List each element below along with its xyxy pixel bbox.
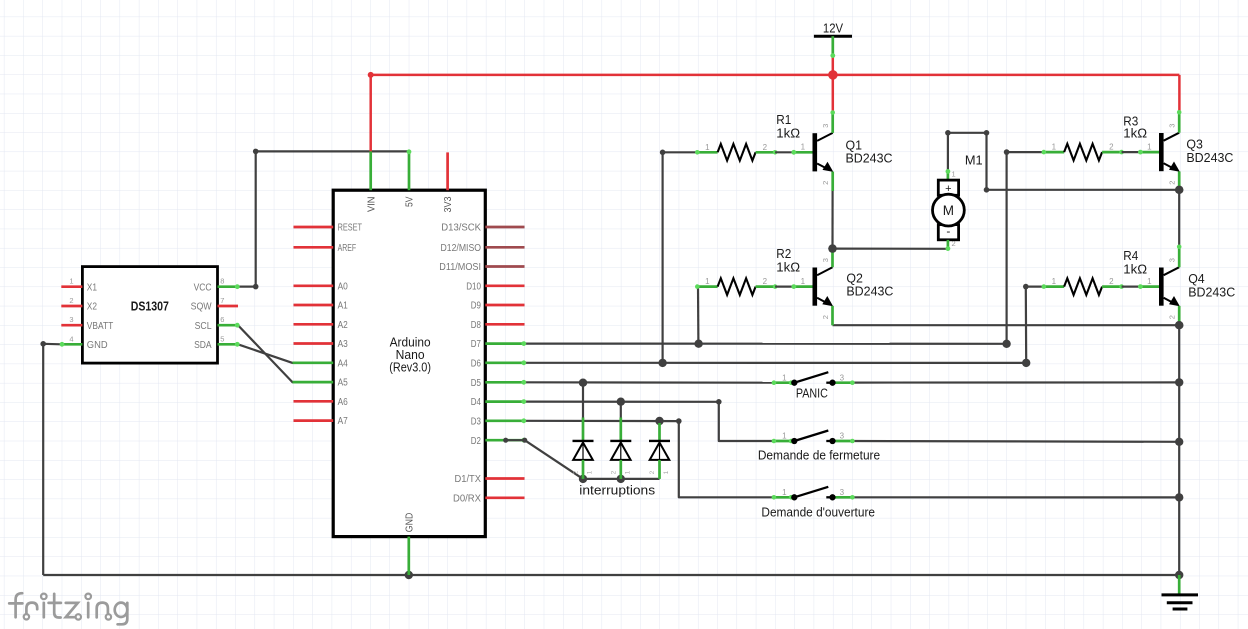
wire D6 junction up to R1 pin1 bbox=[663, 152, 698, 363]
svg-text:1: 1 bbox=[705, 277, 710, 286]
switch PANIC pole contact bbox=[791, 380, 797, 386]
svg-text:PANIC: PANIC bbox=[796, 386, 828, 401]
Arduino pin D1/TX leg bbox=[485, 477, 524, 480]
bendpoint D3 wire corner bbox=[676, 418, 682, 424]
svg-text:4: 4 bbox=[69, 334, 73, 343]
switch PANIC throw contact bbox=[826, 382, 832, 384]
switch PANIC lever bbox=[794, 372, 828, 383]
ground symbol bar 2 bbox=[1167, 601, 1193, 604]
ground symbol bar 1 bbox=[1162, 593, 1199, 596]
switch Demande de fermeture pole contact bbox=[791, 438, 797, 444]
svg-text:M: M bbox=[943, 203, 954, 218]
svg-text:A4: A4 bbox=[338, 358, 349, 369]
DS1307 pin 3 VBATT leg bbox=[61, 324, 82, 327]
wire D6 junction up to R4 pin1 bbox=[1026, 287, 1044, 363]
wire Q2 emitter to Q4 emitter row bbox=[833, 324, 1180, 326]
svg-text:8: 8 bbox=[220, 277, 224, 286]
junction anode bus at diode D2 bbox=[617, 475, 625, 483]
junction Q3 emitter / Q4 collector bbox=[1175, 186, 1183, 194]
power symbol 12V bar bbox=[814, 35, 852, 38]
junction Arduino GND on ground rail bbox=[405, 571, 413, 579]
svg-text:VIN: VIN bbox=[366, 197, 377, 213]
svg-text:3V3: 3V3 bbox=[443, 197, 454, 213]
svg-text:1: 1 bbox=[705, 143, 710, 152]
bendpoint D4 wire corner bbox=[716, 399, 722, 405]
switch Demande de fermeture throw contact circle bbox=[829, 438, 835, 444]
bendpoint motor wire corner 3 bbox=[984, 187, 990, 193]
transistor Q3 collector stroke bbox=[1164, 133, 1180, 141]
wire 12V red rail horizontal bbox=[371, 74, 1180, 77]
svg-text:12V: 12V bbox=[823, 20, 843, 35]
bendpoint on D2 leg bbox=[503, 438, 508, 443]
Arduino pin D2 leg bbox=[485, 439, 524, 442]
resistor R2 zigzag bbox=[718, 278, 756, 295]
switch Demande de fermeture throw contact bbox=[826, 440, 832, 442]
svg-text:3: 3 bbox=[840, 373, 845, 382]
Arduino pin A7 leg bbox=[294, 419, 334, 422]
wire PANIC switch to right rail bbox=[853, 381, 1180, 383]
wire DS1307 SDA to Arduino A4 (diagonal) bbox=[238, 344, 293, 363]
junction right rail at ouverture row bbox=[1175, 493, 1183, 501]
wire ouverture switch to right rail bbox=[853, 496, 1180, 498]
svg-text:VBATT: VBATT bbox=[87, 321, 113, 332]
wire DS1307 GND to ground rail (left vertical) bbox=[43, 344, 61, 575]
svg-text:3: 3 bbox=[1168, 258, 1177, 262]
svg-text:A0: A0 bbox=[338, 281, 349, 292]
svg-text:D8: D8 bbox=[471, 320, 481, 331]
DS1307 pin 1 X1 leg bbox=[61, 285, 82, 288]
transistor Q4 base leg bbox=[1140, 285, 1159, 288]
svg-text:2: 2 bbox=[821, 315, 830, 319]
svg-text:1: 1 bbox=[1147, 277, 1152, 286]
Arduino pin A0 leg bbox=[294, 284, 334, 287]
wire R1 to Q1 base bbox=[775, 151, 793, 153]
svg-text:1: 1 bbox=[1052, 143, 1057, 152]
Arduino pin D8 leg bbox=[485, 323, 524, 326]
diode D3 triangle bbox=[650, 443, 670, 460]
transistor Q2 body bar bbox=[813, 268, 818, 306]
wire D4 junction down to diode D2 bbox=[620, 402, 622, 419]
svg-text:M1: M1 bbox=[965, 152, 983, 167]
Arduino pin D12/MISO leg bbox=[485, 246, 524, 249]
diode D3 center line bbox=[659, 443, 661, 460]
svg-text:3: 3 bbox=[69, 315, 73, 324]
svg-text:2: 2 bbox=[610, 470, 617, 474]
svg-text:1: 1 bbox=[801, 277, 806, 286]
diode D1 center line bbox=[582, 443, 584, 460]
wire motor pin 1 up-over to Q3 emitter junction bbox=[948, 133, 1179, 190]
svg-text:SCL: SCL bbox=[195, 321, 213, 332]
DS1307 pin 5 SDA leg bbox=[218, 343, 239, 346]
transistor Q2 base leg bbox=[793, 285, 812, 288]
svg-text:1: 1 bbox=[801, 143, 806, 152]
svg-text:BD243C: BD243C bbox=[846, 151, 893, 166]
DS1307 pin 8 VCC leg bbox=[218, 285, 239, 288]
svg-text:7: 7 bbox=[220, 296, 224, 305]
bendpoint at GND wire corner bbox=[40, 341, 46, 347]
resistor R4 zigzag bbox=[1064, 278, 1102, 295]
svg-text:1kΩ: 1kΩ bbox=[776, 260, 800, 275]
switch Demande de fermeture lever bbox=[794, 431, 828, 442]
transistor Q2 emitter arrow bbox=[822, 296, 833, 306]
svg-text:D6: D6 bbox=[471, 358, 481, 369]
svg-text:BD243C: BD243C bbox=[846, 284, 893, 299]
transistor Q3 base leg bbox=[1140, 151, 1159, 154]
svg-text:D4: D4 bbox=[471, 397, 482, 408]
transistor Q3 emitter leg (pin 2) bbox=[1178, 171, 1181, 190]
svg-text:1kΩ: 1kΩ bbox=[1123, 125, 1147, 140]
svg-text:5V: 5V bbox=[405, 196, 416, 207]
svg-text:3: 3 bbox=[840, 432, 845, 441]
transistor Q4 emitter arrow bbox=[1169, 296, 1180, 306]
Arduino pin RESET leg bbox=[294, 226, 334, 229]
svg-text:VCC: VCC bbox=[194, 282, 212, 293]
svg-text:2: 2 bbox=[1109, 277, 1114, 286]
Arduino pin A5 leg bbox=[293, 381, 334, 384]
switch Demande d'ouverture pin 3 leg bbox=[833, 496, 853, 499]
wire R4 to Q4 base bbox=[1122, 286, 1140, 288]
wire motor junction to motor pin 2 bbox=[833, 248, 948, 250]
switch Demande d'ouverture lever bbox=[794, 487, 828, 498]
Arduino pin D5 leg bbox=[485, 381, 524, 384]
junction anode bus at diode D1 bbox=[579, 475, 587, 483]
svg-text:2: 2 bbox=[1168, 315, 1177, 319]
svg-text:A3: A3 bbox=[338, 339, 348, 350]
svg-text:D1/TX: D1/TX bbox=[455, 474, 482, 485]
junction D5 to diode D1 bbox=[579, 379, 587, 387]
motor M1 bottom terminal block bbox=[938, 225, 958, 240]
motor M1 top terminal block bbox=[938, 180, 958, 195]
motor M1 pin 1 leg bbox=[947, 171, 950, 181]
junction redraw at Q2 collector / Q1 emitter bbox=[828, 244, 836, 252]
junction D7 to R3 base drive bbox=[1002, 340, 1010, 348]
Arduino pin A2 leg bbox=[294, 323, 334, 326]
diode D2 bottom leg (anode) bbox=[619, 460, 622, 479]
svg-text:RESET: RESET bbox=[338, 223, 362, 234]
svg-text:2: 2 bbox=[952, 239, 956, 248]
svg-text:Demande d'ouverture: Demande d'ouverture bbox=[761, 504, 875, 519]
switch PANIC pin 1 leg bbox=[774, 381, 794, 384]
svg-text:1: 1 bbox=[782, 488, 787, 497]
svg-text:GND: GND bbox=[87, 340, 108, 351]
svg-text:2: 2 bbox=[763, 277, 768, 286]
wire D7 row bbox=[525, 343, 1007, 345]
svg-text:DS1307: DS1307 bbox=[131, 298, 169, 313]
transistor Q3 emitter arrow bbox=[1169, 162, 1180, 172]
svg-text:2: 2 bbox=[573, 470, 580, 474]
junction ground rail to ground symbol bbox=[1175, 571, 1183, 579]
wire Q3 emitter junction down to Q4 collector bbox=[1178, 190, 1180, 248]
bendpoint R4 feed corner bbox=[1023, 284, 1029, 290]
wire red 12V stem down to Q1 collector bbox=[832, 56, 835, 112]
switch PANIC pin 3 leg bbox=[833, 381, 853, 384]
svg-text:A7: A7 bbox=[338, 416, 348, 427]
svg-text:D11/MOSI: D11/MOSI bbox=[439, 262, 481, 273]
transistor Q3 body bar bbox=[1159, 133, 1164, 171]
power symbol 12V green stem bbox=[831, 36, 834, 56]
diode D1 cathode bar bbox=[573, 440, 594, 442]
DS1307 pin 4 GND leg bbox=[61, 343, 82, 346]
motor M1 circle body bbox=[933, 194, 965, 226]
resistor R4 leg 2 bbox=[1102, 285, 1122, 288]
transistor Q2 emitter stroke bbox=[817, 298, 828, 304]
diode D1 triangle bbox=[573, 443, 593, 460]
module U2 Arduino Nano body bbox=[333, 190, 485, 536]
switch Demande d'ouverture throw contact circle bbox=[829, 494, 835, 500]
resistor R1 leg 2 bbox=[756, 151, 776, 154]
svg-text:1: 1 bbox=[587, 470, 594, 474]
transistor Q1 body bar bbox=[813, 133, 818, 171]
junction D7 to R2 base drive bbox=[694, 340, 702, 348]
svg-text:D3: D3 bbox=[471, 416, 481, 427]
Arduino pin D13/SCK leg bbox=[485, 226, 524, 229]
junction D6 to R4 base drive bbox=[1022, 359, 1030, 367]
transistor Q2 emitter leg (pin 2) bbox=[831, 306, 834, 325]
Arduino pin A1 leg bbox=[294, 304, 334, 307]
diode D1 bottom leg (anode) bbox=[582, 460, 585, 479]
svg-text:interruptions: interruptions bbox=[579, 482, 655, 497]
wire D3 row bbox=[525, 421, 775, 498]
transistor Q2 collector leg (pin 3) bbox=[831, 246, 834, 267]
fritzing watermark logo bbox=[9, 593, 127, 624]
svg-text:2: 2 bbox=[763, 143, 768, 152]
svg-text:D5: D5 bbox=[471, 378, 481, 389]
transistor Q4 emitter leg (pin 2) bbox=[1178, 306, 1181, 325]
wire DS1307 SCL to Arduino A5 (diagonal) bbox=[238, 325, 293, 382]
junction redraw at Q4 collector / Q3 emitter bbox=[1175, 186, 1183, 194]
switch PANIC throw contact circle bbox=[829, 380, 835, 386]
Arduino pin VIN leg bbox=[369, 151, 372, 190]
bendpoint at VCC wire top corner bbox=[253, 149, 259, 155]
Arduino pin D11/MOSI leg bbox=[485, 265, 524, 268]
bendpoint at D2 leg end bbox=[522, 438, 527, 443]
Arduino pin A6 leg bbox=[294, 400, 334, 403]
switch Demande de fermeture pin 3 leg bbox=[833, 440, 853, 443]
Arduino pin D10 leg bbox=[485, 284, 524, 287]
wire Q1 emitter down to motor junction bbox=[831, 191, 833, 249]
svg-text:1: 1 bbox=[782, 432, 787, 441]
diode D1 top leg (cathode) bbox=[582, 418, 585, 441]
svg-text:2: 2 bbox=[1109, 143, 1114, 152]
bendpoint at VCC wire corner bbox=[253, 284, 259, 290]
resistor R3 zigzag bbox=[1064, 144, 1102, 161]
junction D4 to diode D2 bbox=[617, 398, 625, 406]
resistor R1 leg 1 bbox=[697, 151, 717, 154]
svg-text:A5: A5 bbox=[338, 378, 348, 389]
wire D4 row bbox=[525, 402, 775, 441]
Arduino pin 3V3 leg bbox=[446, 152, 449, 190]
diode D2 cathode bar bbox=[610, 440, 631, 442]
svg-text:3: 3 bbox=[1168, 124, 1177, 128]
transistor Q4 body bar bbox=[1159, 268, 1164, 306]
switch Demande d'ouverture pin 1 leg bbox=[774, 496, 794, 499]
wire R2 to Q2 base bbox=[775, 286, 793, 288]
svg-text:2: 2 bbox=[69, 296, 73, 305]
resistor R3 leg 2 bbox=[1102, 151, 1122, 154]
switch Demande de fermeture pin 1 leg bbox=[774, 440, 794, 443]
wire right emitter rail vertical bbox=[1178, 325, 1180, 575]
wire D7 junction up to R3 pin1 bbox=[1007, 152, 1044, 344]
resistor R2 leg 1 bbox=[697, 285, 717, 288]
wire D5 junction down to diode D1 bbox=[582, 383, 584, 419]
svg-text:1: 1 bbox=[663, 470, 670, 474]
junction redraw at Q4 emitter row bbox=[1175, 321, 1183, 329]
resistor R4 leg 1 bbox=[1044, 285, 1064, 288]
svg-text:6: 6 bbox=[220, 315, 224, 324]
svg-text:5: 5 bbox=[220, 334, 224, 343]
wire DS1307 VCC to Arduino 5V bbox=[238, 151, 409, 286]
svg-text:BD243C: BD243C bbox=[1188, 284, 1235, 299]
svg-text:1kΩ: 1kΩ bbox=[776, 125, 800, 140]
svg-text:X2: X2 bbox=[87, 302, 97, 313]
switch Demande d'ouverture pole contact bbox=[791, 494, 797, 500]
DS1307 pin 6 SCL leg bbox=[218, 324, 239, 327]
DS1307 pin 7 SQW leg bbox=[218, 305, 239, 308]
transistor Q1 collector stroke bbox=[817, 133, 833, 141]
svg-text:1: 1 bbox=[1052, 277, 1057, 286]
svg-text:3: 3 bbox=[821, 258, 830, 262]
svg-text:A2: A2 bbox=[338, 320, 348, 331]
svg-text:1: 1 bbox=[782, 373, 787, 382]
wire red drop to Arduino VIN bbox=[369, 75, 372, 151]
junction D6 to R1 base drive bbox=[658, 359, 666, 367]
svg-text:A6: A6 bbox=[338, 397, 348, 408]
bendpoint motor wire corner 1 bbox=[945, 130, 951, 136]
Arduino pin D6 leg bbox=[485, 361, 524, 364]
transistor Q1 emitter arrow bbox=[823, 162, 834, 172]
wire R3 to Q3 base bbox=[1122, 151, 1140, 153]
junction Q1 emitter / Q2 collector / motor bbox=[828, 244, 836, 252]
svg-text:A1: A1 bbox=[338, 301, 348, 312]
junction D3 to diode D3 bbox=[655, 417, 663, 425]
transistor Q1 emitter leg (pin 2) bbox=[831, 172, 834, 191]
bendpoint R3 feed corner bbox=[1004, 149, 1010, 155]
svg-text:X1: X1 bbox=[87, 282, 97, 293]
svg-text:D2: D2 bbox=[471, 436, 481, 447]
junction right rail at fermeture row bbox=[1175, 438, 1183, 446]
svg-text:D13/SCK: D13/SCK bbox=[441, 223, 481, 234]
wire D5 row to PANIC switch bbox=[525, 381, 774, 384]
bendpoint motor wire corner 2 bbox=[984, 130, 990, 136]
diode D2 top leg (cathode) bbox=[619, 418, 622, 441]
svg-text:BD243C: BD243C bbox=[1186, 150, 1233, 165]
transistor Q4 emitter stroke bbox=[1164, 298, 1175, 304]
svg-text:1: 1 bbox=[952, 170, 956, 179]
wire D2 leg overlay to bendpoint bbox=[506, 440, 583, 479]
svg-text:D9: D9 bbox=[471, 301, 481, 312]
svg-text:1kΩ: 1kΩ bbox=[1123, 262, 1147, 277]
svg-text:D0/RX: D0/RX bbox=[453, 493, 482, 504]
svg-text:1: 1 bbox=[624, 470, 631, 474]
switch Demande d'ouverture throw contact bbox=[826, 496, 832, 498]
transistor Q4 collector leg (pin 3) bbox=[1178, 246, 1181, 267]
diode D3 bottom leg (anode) bbox=[658, 460, 661, 479]
resistor R1 zigzag bbox=[718, 144, 756, 161]
red rail left corner bbox=[368, 72, 374, 78]
ground symbol bar 3 bbox=[1173, 608, 1188, 611]
Arduino pin AREF leg bbox=[294, 246, 334, 249]
ground symbol green stem bbox=[1178, 575, 1181, 594]
svg-text:2: 2 bbox=[1168, 181, 1177, 185]
IC U1 DS1307 body bbox=[82, 267, 217, 364]
svg-text:GND: GND bbox=[404, 513, 415, 533]
svg-text:D10: D10 bbox=[466, 281, 481, 292]
wire ground rail bottom bbox=[43, 574, 1179, 576]
wire fermeture switch to right rail bbox=[853, 440, 1180, 443]
svg-text:AREF: AREF bbox=[338, 243, 357, 254]
resistor R3 leg 1 bbox=[1044, 151, 1064, 154]
DS1307 pin 2 X2 leg bbox=[61, 305, 82, 308]
transistor Q1 collector leg (pin 3) bbox=[831, 112, 834, 133]
motor M1 pin 2 leg bbox=[947, 240, 950, 249]
Arduino pin D9 leg bbox=[485, 304, 524, 307]
Arduino pin GND leg bbox=[407, 537, 410, 575]
Arduino pin A3 leg bbox=[294, 342, 334, 345]
Arduino pin 5V leg bbox=[408, 151, 411, 190]
wire red rail right drop to Q3 collector bbox=[1178, 75, 1181, 112]
Arduino pin D7 leg bbox=[485, 342, 524, 345]
wire D7 junction up to R2 pin1 bbox=[697, 287, 700, 344]
svg-text:D12/MISO: D12/MISO bbox=[441, 243, 482, 254]
svg-text:2: 2 bbox=[649, 470, 656, 474]
junction right rail at Q2/Q4 emitter row bbox=[1175, 321, 1183, 329]
wire D6 row bbox=[525, 362, 1027, 364]
Arduino pin D3 leg bbox=[485, 419, 524, 422]
node 12V junction bbox=[828, 70, 838, 80]
diode D2 triangle bbox=[611, 443, 631, 460]
svg-text:3: 3 bbox=[840, 488, 845, 497]
svg-text:Demande de fermeture: Demande de fermeture bbox=[758, 447, 880, 462]
transistor Q4 collector stroke bbox=[1164, 267, 1180, 275]
diode D2 center line bbox=[620, 443, 622, 460]
transistor Q2 collector stroke bbox=[817, 267, 832, 275]
Arduino pin A4 leg bbox=[293, 361, 334, 364]
Arduino pin D4 leg bbox=[485, 400, 524, 403]
svg-text:D7: D7 bbox=[471, 339, 481, 350]
svg-text:1: 1 bbox=[69, 277, 73, 286]
svg-text:3: 3 bbox=[821, 124, 830, 128]
diode D3 top leg (cathode) bbox=[658, 423, 661, 441]
svg-text:(Rev3.0): (Rev3.0) bbox=[389, 361, 431, 375]
transistor Q1 base leg bbox=[793, 151, 812, 154]
svg-text:SQW: SQW bbox=[191, 302, 213, 313]
bendpoint R1 feed corner bbox=[660, 150, 666, 156]
svg-text:SDA: SDA bbox=[194, 340, 212, 351]
transistor Q1 emitter stroke bbox=[817, 164, 828, 170]
wire diode anode bus bbox=[583, 478, 660, 480]
diode D3 cathode bar bbox=[649, 440, 670, 442]
transistor Q3 emitter stroke bbox=[1164, 163, 1175, 169]
transistor Q3 collector leg (pin 3) bbox=[1178, 112, 1181, 133]
Arduino pin D0/RX leg bbox=[485, 496, 524, 499]
junction right rail at PANIC row bbox=[1175, 378, 1183, 386]
resistor R2 leg 2 bbox=[756, 285, 776, 288]
svg-text:1: 1 bbox=[1147, 143, 1152, 152]
svg-text:2: 2 bbox=[821, 181, 830, 185]
